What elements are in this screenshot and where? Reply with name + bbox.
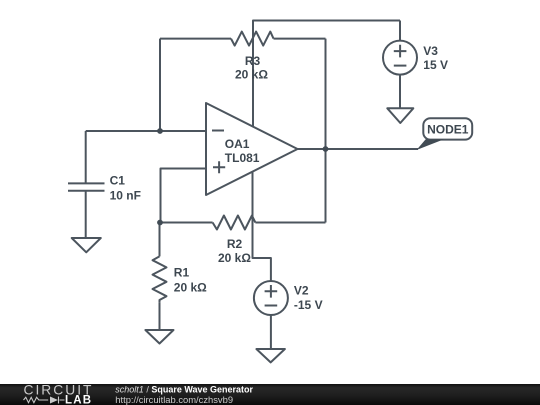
svg-text:NODE1: NODE1 (427, 122, 469, 136)
svg-text:C1: C1 (110, 174, 126, 188)
svg-text:20 kΩ: 20 kΩ (174, 281, 207, 295)
svg-text:-15 V: -15 V (294, 298, 323, 312)
svg-text:15 V: 15 V (423, 58, 448, 72)
svg-text:R1: R1 (174, 266, 190, 280)
svg-text:10 nF: 10 nF (110, 188, 141, 202)
svg-text:OA1: OA1 (225, 137, 250, 151)
svg-text:R3: R3 (245, 54, 261, 68)
svg-text:20 kΩ: 20 kΩ (235, 68, 268, 82)
svg-text:R2: R2 (227, 237, 243, 251)
svg-text:LAB: LAB (65, 395, 92, 405)
svg-text:V3: V3 (423, 44, 438, 58)
svg-text:20 kΩ: 20 kΩ (218, 251, 251, 265)
svg-text:http://circuitlab.com/czhsvb9: http://circuitlab.com/czhsvb9 (115, 394, 233, 405)
svg-text:V2: V2 (294, 284, 309, 298)
svg-text:TL081: TL081 (225, 151, 260, 165)
